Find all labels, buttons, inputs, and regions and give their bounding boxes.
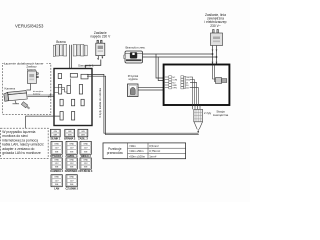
- svg-text:12V: 12V: [55, 163, 59, 165]
- svg-text:GND: GND: [69, 160, 74, 162]
- svg-text:CZUJNIK 2: CZUJNIK 2: [65, 187, 78, 191]
- svg-text:kamery: kamery: [33, 92, 41, 95]
- svg-text:Kamera: Kamera: [5, 87, 16, 91]
- svg-text:GND: GND: [186, 80, 191, 82]
- svg-text:KAMERA 2: KAMERA 2: [50, 169, 63, 173]
- svg-text:12V: 12V: [70, 148, 74, 150]
- svg-text:WE: WE: [55, 152, 59, 154]
- svg-text:2 żyły: 2 żyły: [204, 111, 212, 115]
- svg-text:4 żyły kabla do silnika: 4 żyły kabla do silnika: [98, 88, 102, 118]
- svg-text:1mm²: 1mm²: [149, 154, 156, 158]
- svg-text:LAN: LAN: [54, 187, 59, 191]
- svg-text:Łączenie dodatkowych kamer: Łączenie dodatkowych kamer: [4, 62, 44, 66]
- svg-text:WH: WH: [81, 134, 85, 136]
- svg-text:230 V~: 230 V~: [210, 24, 221, 28]
- svg-text:zewnętrzna: zewnętrzna: [213, 113, 229, 117]
- svg-text:ZASIL. 3: ZASIL. 3: [78, 137, 88, 141]
- svg-text:12V: 12V: [70, 163, 74, 165]
- svg-text:WE: WE: [70, 184, 74, 186]
- svg-text:GND: GND: [69, 144, 74, 146]
- svg-text:GND: GND: [69, 177, 74, 179]
- svg-text:WE: WE: [55, 184, 59, 186]
- svg-text:WH: WH: [53, 134, 57, 136]
- svg-text:0,75mm²: 0,75mm²: [149, 149, 160, 153]
- svg-text:BRAMA 2: BRAMA 2: [64, 137, 76, 141]
- svg-text:gniazda LAN w monitorze: gniazda LAN w monitorze: [2, 151, 41, 155]
- svg-text:WE: WE: [84, 167, 88, 169]
- svg-text:WH: WH: [68, 134, 72, 136]
- svg-text:12V: 12V: [186, 88, 190, 90]
- svg-text:Sterownik 1: Sterownik 1: [78, 64, 94, 68]
- svg-text:Brama: Brama: [56, 40, 66, 44]
- svg-text:COM: COM: [172, 80, 177, 82]
- svg-text:WE: WE: [84, 152, 88, 154]
- svg-text:GND: GND: [54, 177, 59, 179]
- svg-text:WE: WE: [70, 167, 74, 169]
- svg-text:GND: GND: [54, 160, 59, 162]
- svg-text:SILNIK 1: SILNIK 1: [50, 137, 61, 141]
- svg-text:>50m ≤100m: >50m ≤100m: [129, 154, 146, 158]
- svg-text:DZWONEK i: DZWONEK i: [65, 169, 79, 173]
- svg-text:>30m ≤50m: >30m ≤50m: [129, 149, 144, 153]
- svg-text:<30m: <30m: [129, 144, 137, 148]
- svg-text:12V: 12V: [70, 180, 74, 182]
- svg-text:12V: 12V: [55, 180, 59, 182]
- svg-text:wyjścia: wyjścia: [128, 77, 137, 81]
- svg-text:WE: WE: [55, 167, 59, 169]
- svg-text:0,5mm²: 0,5mm²: [149, 144, 159, 148]
- svg-text:WE: WE: [70, 152, 74, 154]
- svg-text:ZAMKN. 1 i: ZAMKN. 1 i: [65, 154, 78, 158]
- svg-text:12V: 12V: [84, 163, 88, 165]
- svg-text:Bramofon zew.: Bramofon zew.: [126, 45, 146, 49]
- svg-text:GND: GND: [83, 160, 88, 162]
- svg-text:GND: GND: [54, 144, 59, 146]
- svg-text:VERUS/84253: VERUS/84253: [15, 24, 44, 29]
- svg-text:napędu 230 V: napędu 230 V: [90, 35, 111, 39]
- svg-text:GND: GND: [172, 85, 177, 87]
- svg-text:GND: GND: [83, 144, 88, 146]
- svg-text:NO: NO: [172, 82, 176, 84]
- svg-text:NC: NC: [172, 77, 176, 79]
- svg-text:OPN: OPN: [172, 88, 177, 90]
- svg-text:12V: 12V: [84, 148, 88, 150]
- svg-text:12V: 12V: [55, 148, 59, 150]
- svg-text:przewodów: przewodów: [107, 151, 124, 155]
- svg-text:WIDEO 2: WIDEO 2: [81, 154, 92, 158]
- svg-text:GN: GN: [81, 131, 85, 133]
- svg-text:GN: GN: [54, 131, 58, 133]
- svg-text:GN: GN: [68, 131, 72, 133]
